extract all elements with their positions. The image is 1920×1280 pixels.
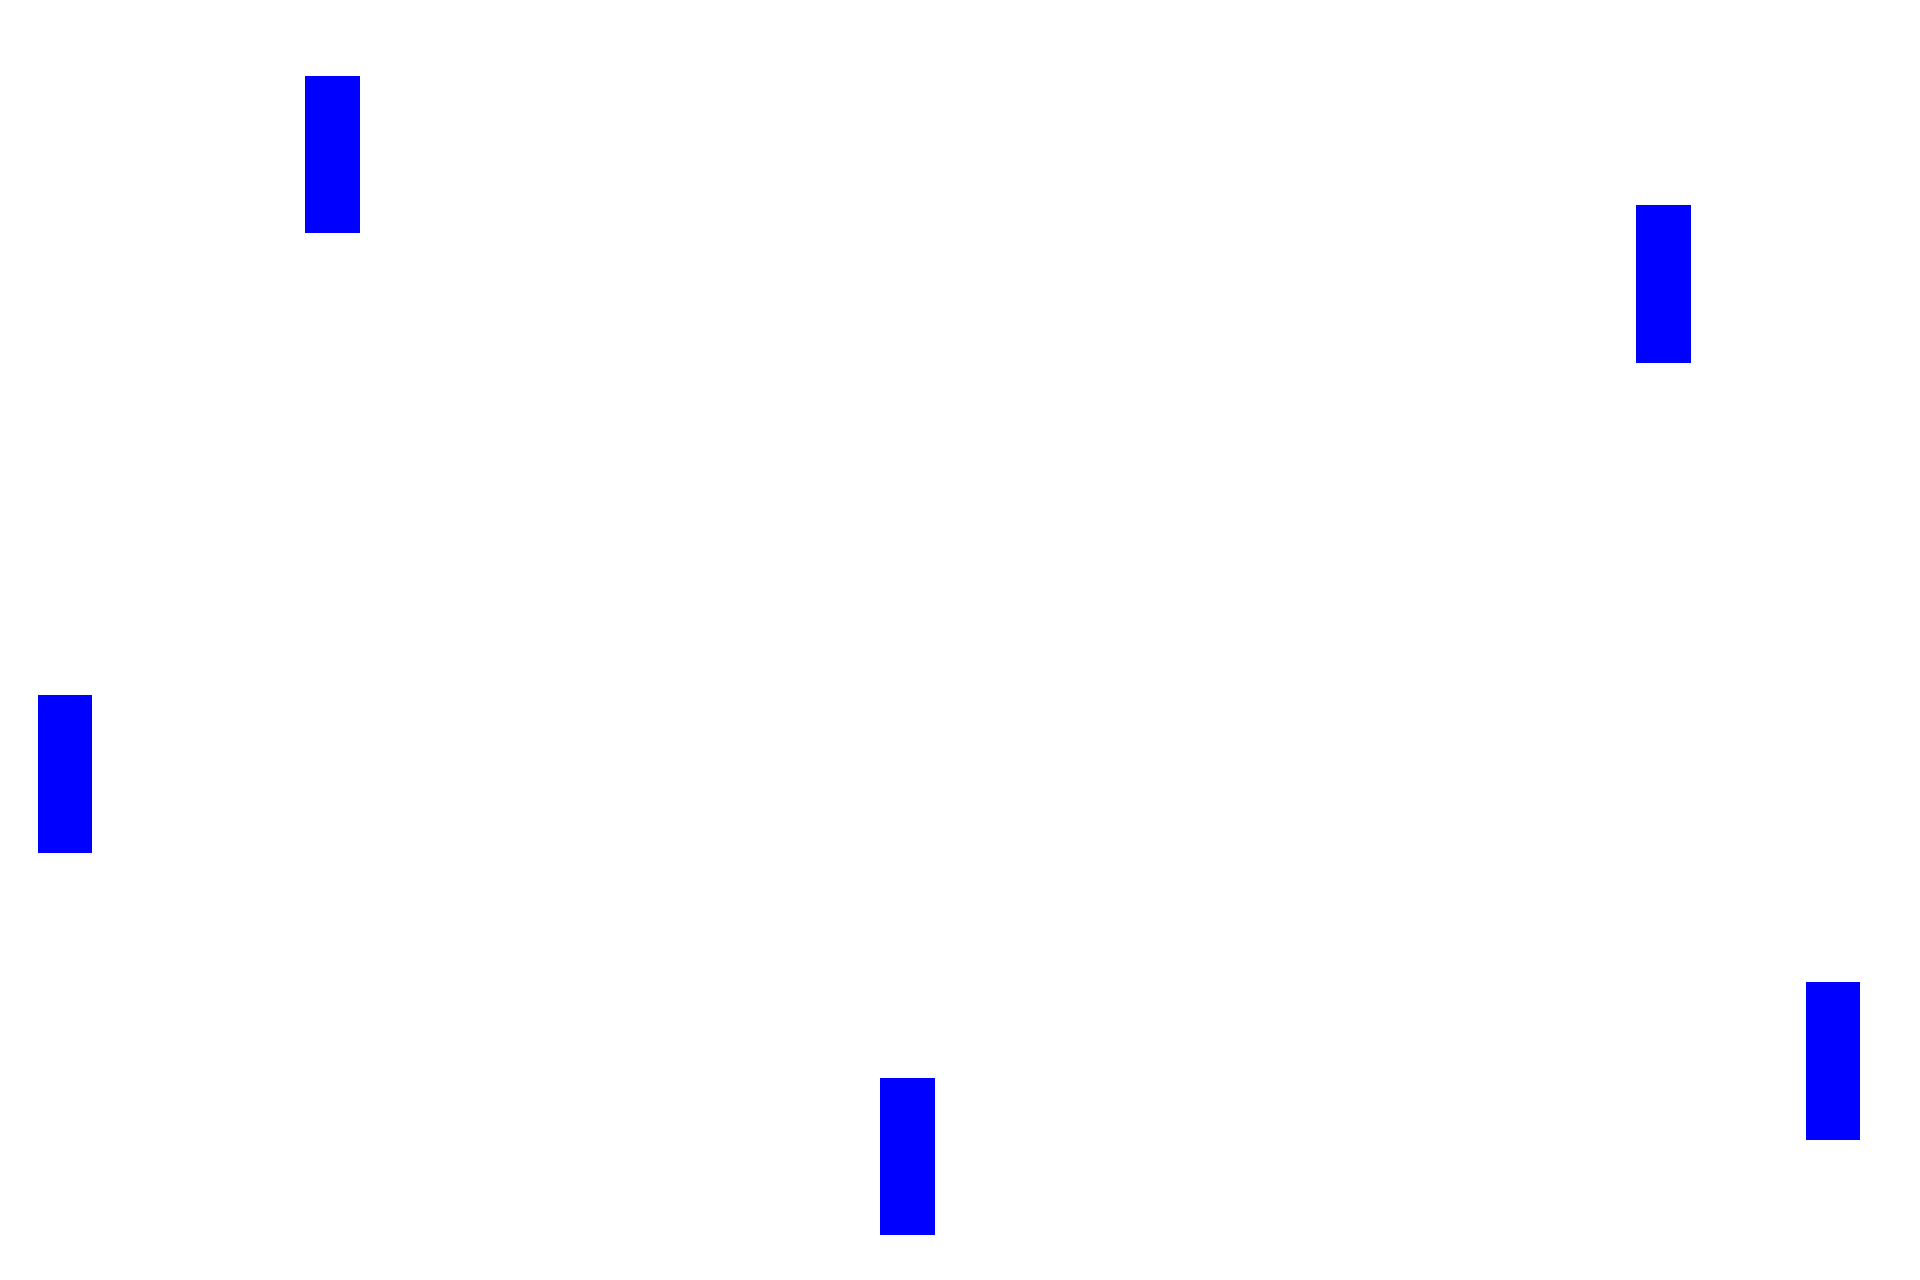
blue rectangle 3 (middle left) <box>38 695 92 853</box>
blue rectangle 1 (top left) <box>305 76 360 233</box>
blue rectangle 5 (bottom right) <box>1806 982 1860 1140</box>
blue rectangle 2 (upper right) <box>1636 205 1691 363</box>
blue rectangle 4 (bottom center) <box>880 1078 935 1236</box>
